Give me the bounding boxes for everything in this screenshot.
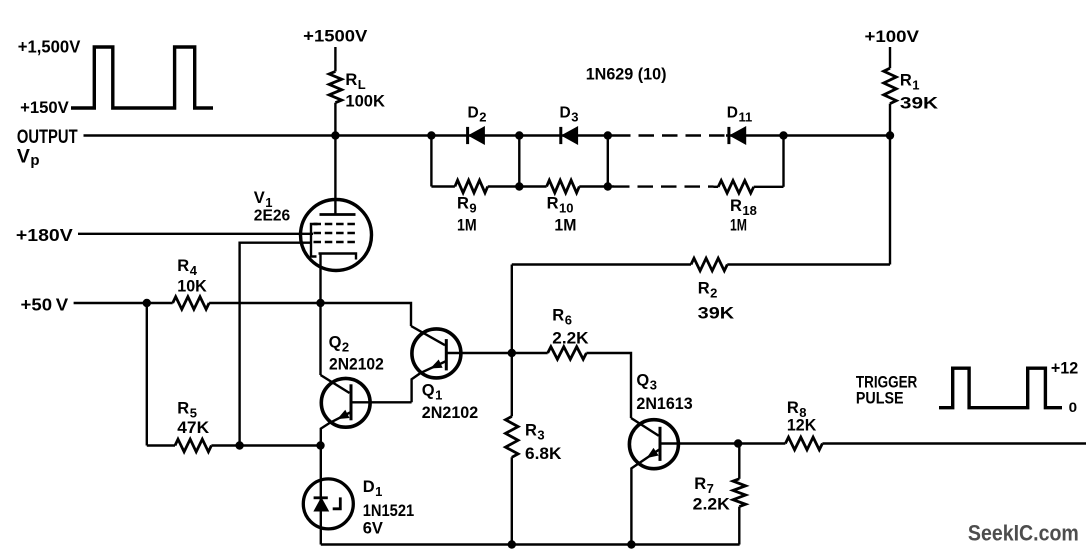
svg-text:Q: Q bbox=[329, 334, 342, 352]
node rail-Q3emitter bbox=[627, 540, 635, 548]
svg-text:1N1521: 1N1521 bbox=[363, 502, 415, 520]
svg-text:2.2K: 2.2K bbox=[693, 495, 730, 513]
transistor Q3 circle bbox=[629, 420, 678, 469]
svg-text:+150V: +150V bbox=[20, 99, 69, 117]
wire left branch vertical bbox=[146, 303, 148, 446]
wire cathode lead bbox=[319, 254, 321, 304]
tube cathode bbox=[319, 254, 357, 260]
zener D1 bent bar bbox=[333, 497, 341, 508]
svg-text:10K: 10K bbox=[177, 277, 207, 295]
trigger pulse waveform bbox=[939, 368, 1062, 408]
svg-text:D: D bbox=[727, 105, 738, 122]
svg-text:11: 11 bbox=[739, 110, 753, 125]
transistor Q1 base bar bbox=[445, 339, 448, 370]
svg-text:39K: 39K bbox=[698, 304, 734, 322]
svg-text:R: R bbox=[525, 422, 537, 440]
svg-text:+12: +12 bbox=[1051, 359, 1078, 378]
wire plate lead bbox=[334, 136, 336, 215]
transistor Q2 emitter arrow bbox=[337, 410, 349, 419]
wire lower rail a bbox=[431, 185, 455, 187]
zener diode D1 circle bbox=[303, 479, 353, 529]
wire right vertical bbox=[889, 136, 891, 265]
svg-text:+1500V: +1500V bbox=[303, 26, 368, 45]
svg-text:2: 2 bbox=[710, 286, 717, 301]
wire Q2 collector diagonal bbox=[321, 375, 350, 393]
svg-text:R: R bbox=[698, 280, 710, 298]
svg-text:p: p bbox=[30, 152, 39, 169]
wire Q1 emitter bbox=[412, 361, 447, 402]
wire R8 line b bbox=[822, 442, 1086, 444]
wire R6 line a bbox=[512, 352, 548, 354]
svg-text:Q: Q bbox=[636, 372, 649, 390]
transistor Q3 emitter arrow bbox=[647, 448, 659, 458]
wire divider vertical 1 bbox=[430, 136, 432, 187]
wire bottom rail bbox=[321, 543, 740, 545]
wire D1 vertical bbox=[320, 446, 322, 545]
svg-text:L: L bbox=[358, 77, 366, 92]
svg-text:D: D bbox=[468, 105, 479, 122]
node cathode junction bbox=[316, 299, 324, 307]
svg-text:2N1613: 2N1613 bbox=[636, 395, 692, 413]
svg-text:R: R bbox=[547, 195, 559, 213]
svg-text:2.2K: 2.2K bbox=[552, 329, 588, 347]
transistor Q1 circle bbox=[412, 329, 461, 378]
resistor R3 bbox=[506, 416, 519, 457]
svg-text:R: R bbox=[900, 72, 912, 90]
wire R6 line b bbox=[586, 353, 631, 418]
resistor R5 bbox=[175, 439, 211, 452]
tube grid row 3 bbox=[314, 241, 357, 243]
svg-text:2N2102: 2N2102 bbox=[422, 404, 478, 422]
svg-text:6.8K: 6.8K bbox=[525, 445, 561, 463]
svg-text:1M: 1M bbox=[457, 217, 477, 235]
resistor R1 bbox=[884, 68, 897, 103]
svg-text:2: 2 bbox=[479, 110, 486, 125]
svg-text:47K: 47K bbox=[177, 419, 209, 437]
wire R5 line b bbox=[211, 444, 320, 446]
svg-text:D: D bbox=[363, 478, 375, 496]
svg-text:D: D bbox=[560, 105, 571, 122]
svg-text:6: 6 bbox=[565, 313, 572, 328]
svg-text:R: R bbox=[552, 307, 564, 325]
diode D3 bbox=[559, 127, 562, 144]
resistor R4 bbox=[173, 297, 209, 310]
zener D1 cathode bar bbox=[314, 496, 328, 499]
svg-text:+1,500V: +1,500V bbox=[18, 37, 81, 57]
vacuum tube V1 envelope bbox=[301, 200, 372, 271]
node output-v1 bbox=[427, 131, 435, 139]
svg-text:R: R bbox=[345, 71, 357, 89]
wire lower rail dashed bbox=[614, 185, 714, 187]
resistor R2 bbox=[691, 258, 727, 271]
svg-text:4: 4 bbox=[190, 263, 198, 278]
node rail-v2 bbox=[515, 182, 523, 190]
wire Q3 base lead bbox=[660, 442, 738, 444]
tube plate bbox=[320, 213, 356, 216]
node grid-R5 junction bbox=[235, 441, 243, 449]
wire Q2 emitter bbox=[321, 412, 351, 446]
resistor R9 bbox=[455, 180, 488, 193]
wire Q3 emitter bbox=[631, 449, 660, 545]
wire divider vertical 3 bbox=[607, 136, 609, 187]
svg-text:R: R bbox=[177, 257, 189, 275]
svg-text:V: V bbox=[254, 189, 265, 207]
wire RL bottom lead bbox=[334, 103, 336, 136]
wire R3 bottom lead bbox=[511, 457, 513, 544]
svg-text:1: 1 bbox=[435, 388, 442, 403]
wire Q2 base lead bbox=[351, 401, 412, 403]
tube grid row 1 bbox=[314, 223, 357, 225]
node RL-output junction bbox=[331, 131, 339, 139]
resistor R10 bbox=[547, 180, 580, 193]
svg-text:+180V: +180V bbox=[16, 225, 73, 245]
resistor R6 bbox=[548, 347, 587, 360]
svg-text:SeekIC.com: SeekIC.com bbox=[968, 520, 1079, 545]
svg-text:3: 3 bbox=[537, 428, 544, 443]
svg-text:R: R bbox=[177, 400, 189, 418]
svg-text:R: R bbox=[457, 195, 469, 213]
svg-text:2N2102: 2N2102 bbox=[329, 355, 384, 373]
wire Q1 collector feed bbox=[321, 303, 412, 326]
wire R7 top lead bbox=[738, 444, 740, 479]
wire output line left bbox=[84, 134, 616, 136]
svg-text:R: R bbox=[787, 399, 799, 417]
svg-text:PULSE: PULSE bbox=[856, 389, 904, 408]
wire lower rail d bbox=[714, 186, 719, 188]
svg-text:1: 1 bbox=[912, 78, 919, 93]
transistor Q3 base bar bbox=[659, 427, 662, 461]
wire R2 line left bbox=[512, 263, 691, 265]
wire R8 line a bbox=[738, 442, 785, 444]
node R5-emitter junction bbox=[316, 441, 324, 449]
svg-text:R: R bbox=[730, 197, 742, 215]
wire +50V line b bbox=[209, 302, 320, 304]
wire R1 top lead bbox=[889, 47, 891, 68]
node Q3 base junction bbox=[734, 439, 742, 447]
wire grid branch bbox=[240, 243, 311, 446]
wire RL top lead bbox=[334, 47, 336, 71]
svg-text:1: 1 bbox=[375, 484, 382, 499]
svg-text:+50 V: +50 V bbox=[21, 294, 69, 314]
resistor RL bbox=[329, 71, 342, 102]
wire divider vertical right bbox=[782, 136, 784, 187]
node output-v2 bbox=[515, 131, 523, 139]
svg-text:+100V: +100V bbox=[865, 27, 920, 46]
diode D11 bbox=[727, 127, 730, 144]
svg-text:0: 0 bbox=[1069, 399, 1078, 415]
wire R5 line a bbox=[147, 444, 175, 446]
node +50V junction bbox=[143, 299, 151, 307]
svg-text:1M: 1M bbox=[730, 217, 747, 235]
resistor R18 bbox=[718, 181, 754, 194]
wire node-B vertical bbox=[511, 265, 513, 354]
wire lower rail b bbox=[488, 185, 547, 187]
resistor R8 bbox=[785, 437, 822, 450]
wire R1 bottom lead bbox=[889, 104, 891, 136]
node output-v3 bbox=[604, 131, 612, 139]
wire output line right bbox=[726, 134, 890, 136]
wire Q1 base lead bbox=[446, 352, 512, 354]
svg-text:39K: 39K bbox=[900, 95, 938, 113]
svg-text:3: 3 bbox=[571, 110, 578, 125]
tube grid row 2 bbox=[314, 232, 357, 234]
tube grid bracket bbox=[311, 224, 318, 257]
wire lower rail c bbox=[579, 185, 614, 187]
wire R2 line right bbox=[727, 263, 890, 265]
node B junction bbox=[508, 349, 516, 357]
wire R3 top lead bbox=[511, 353, 513, 416]
svg-text:7: 7 bbox=[707, 481, 714, 496]
wire Q3 collector diagonal bbox=[631, 418, 659, 436]
node R1-output junction bbox=[886, 131, 894, 139]
wire Q1 collector diagonal bbox=[411, 326, 445, 345]
svg-text:3: 3 bbox=[650, 378, 657, 393]
svg-text:6V: 6V bbox=[363, 519, 383, 537]
node rail-R3 bbox=[508, 540, 516, 548]
svg-text:10: 10 bbox=[559, 201, 573, 216]
transistor Q2 base bar bbox=[350, 384, 353, 420]
wire lower rail e bbox=[754, 186, 784, 188]
svg-text:9: 9 bbox=[469, 201, 476, 216]
wire divider vertical 2 bbox=[518, 136, 520, 187]
svg-text:1M: 1M bbox=[554, 217, 576, 235]
svg-text:2E26: 2E26 bbox=[254, 208, 291, 225]
svg-text:12K: 12K bbox=[787, 417, 816, 435]
svg-text:1N629 (10): 1N629 (10) bbox=[586, 66, 667, 84]
transistor Q1 emitter arrow bbox=[430, 360, 442, 369]
wire R7 bottom lead bbox=[738, 507, 740, 545]
transistor Q2 circle bbox=[321, 378, 370, 427]
input pulse waveform bbox=[71, 47, 213, 108]
svg-text:V: V bbox=[17, 146, 30, 168]
wire output line dashed bbox=[615, 134, 726, 136]
svg-text:R: R bbox=[694, 475, 706, 493]
node output-vright bbox=[779, 131, 787, 139]
diode D2 bbox=[466, 127, 469, 144]
svg-text:100K: 100K bbox=[345, 93, 385, 111]
node rail-v3 bbox=[604, 182, 612, 190]
wire cathode to Q2 bbox=[319, 303, 321, 375]
svg-text:Q: Q bbox=[422, 382, 435, 400]
wire +50V line a bbox=[74, 302, 173, 304]
resistor R7 bbox=[733, 479, 746, 507]
wire +180V line bbox=[78, 233, 313, 235]
svg-text:2: 2 bbox=[342, 340, 349, 355]
zener D1 triangle bbox=[314, 498, 328, 511]
